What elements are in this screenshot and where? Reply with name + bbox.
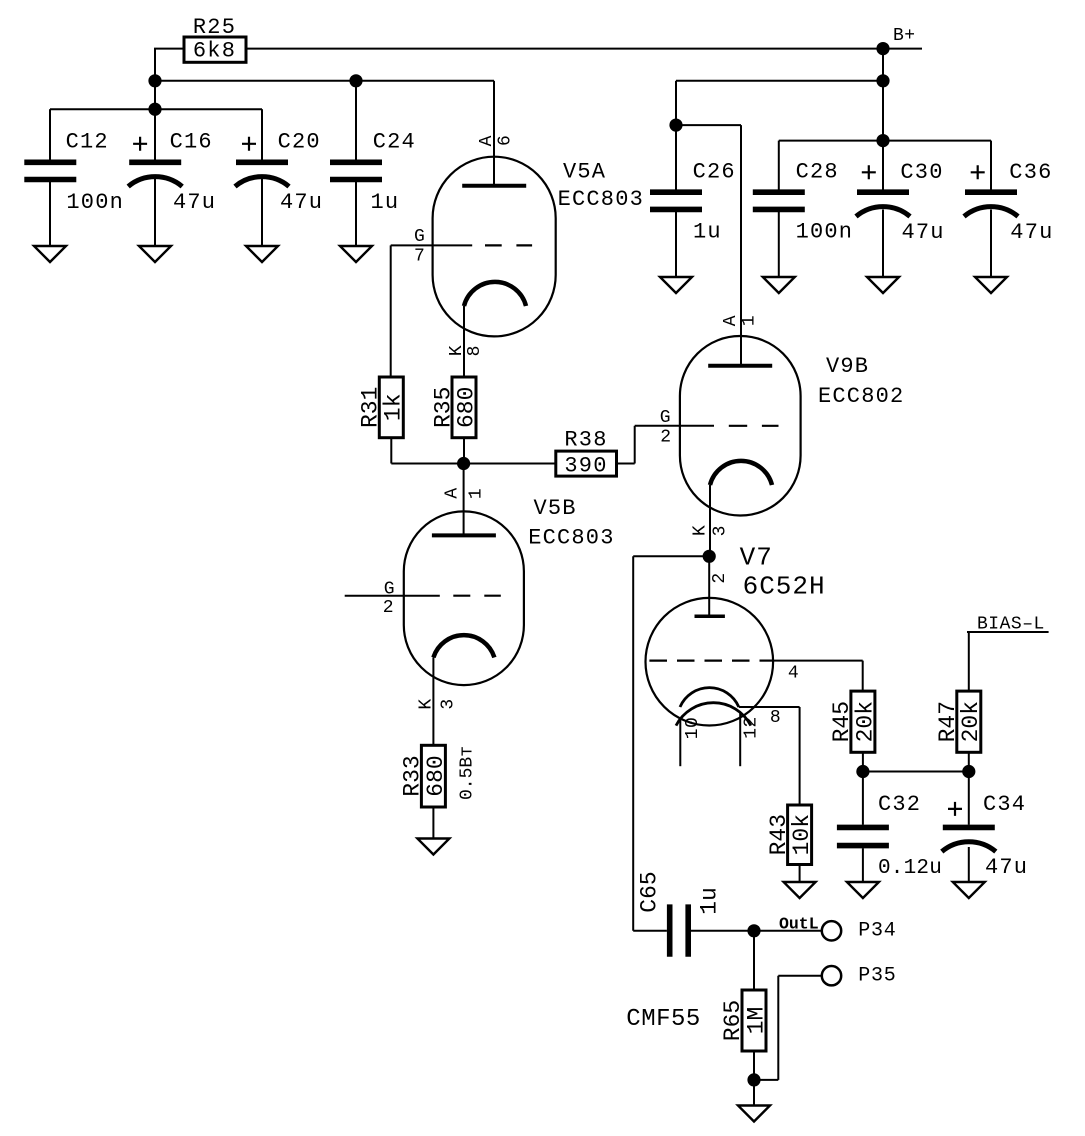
svg-text:8: 8 — [465, 345, 485, 356]
svg-text:20k: 20k — [852, 701, 878, 742]
svg-text:G: G — [384, 580, 395, 600]
svg-text:680: 680 — [423, 755, 449, 796]
svg-text:B+: B+ — [893, 26, 916, 46]
svg-text:10k: 10k — [789, 814, 815, 855]
svg-text:2: 2 — [383, 598, 394, 618]
svg-text:1u: 1u — [371, 190, 400, 215]
svg-text:100n: 100n — [796, 220, 854, 245]
svg-text:1u: 1u — [696, 887, 722, 915]
svg-text:1: 1 — [740, 315, 760, 326]
svg-text:C34: C34 — [983, 792, 1026, 817]
svg-text:V9B: V9B — [826, 354, 869, 379]
svg-text:C16: C16 — [170, 129, 213, 154]
svg-text:7: 7 — [414, 246, 425, 266]
svg-text:2: 2 — [710, 572, 730, 583]
svg-text:C20: C20 — [278, 129, 321, 154]
svg-text:680: 680 — [453, 387, 479, 428]
svg-text:C65: C65 — [636, 871, 662, 912]
svg-text:K: K — [691, 525, 711, 536]
svg-text:6C52H: 6C52H — [743, 572, 826, 602]
svg-text:1u: 1u — [693, 220, 722, 245]
svg-text:ECC802: ECC802 — [818, 384, 904, 409]
svg-text:OutL: OutL — [779, 915, 819, 934]
svg-text:P35: P35 — [858, 964, 896, 987]
svg-text:6: 6 — [496, 135, 516, 146]
svg-text:R25: R25 — [193, 15, 236, 40]
svg-text:R33: R33 — [400, 755, 426, 796]
svg-text:R43: R43 — [766, 814, 792, 855]
svg-text:47u: 47u — [173, 190, 216, 215]
svg-text:R38: R38 — [564, 428, 607, 453]
svg-text:R31: R31 — [357, 387, 383, 428]
svg-text:4: 4 — [788, 664, 799, 684]
svg-text:CMF55: CMF55 — [626, 1006, 701, 1033]
svg-text:C12: C12 — [66, 129, 109, 154]
svg-text:C28: C28 — [796, 159, 839, 184]
svg-text:K: K — [447, 345, 467, 356]
svg-text:12: 12 — [742, 716, 762, 739]
svg-text:10: 10 — [683, 717, 703, 740]
svg-text:2: 2 — [660, 428, 671, 448]
svg-text:V5A: V5A — [563, 160, 606, 185]
svg-text:C32: C32 — [878, 792, 921, 817]
svg-text:0.5Вт: 0.5Вт — [457, 746, 477, 800]
svg-text:A: A — [477, 135, 497, 146]
svg-text:1k: 1k — [381, 393, 407, 421]
svg-text:20k: 20k — [958, 701, 984, 742]
svg-text:V7: V7 — [740, 542, 773, 572]
svg-text:R65: R65 — [720, 1000, 746, 1041]
svg-text:100n: 100n — [66, 190, 124, 215]
svg-text:G: G — [414, 227, 425, 247]
svg-text:V5B: V5B — [534, 496, 577, 521]
svg-text:C36: C36 — [1009, 160, 1052, 185]
svg-text:G: G — [660, 408, 671, 428]
svg-text:47u: 47u — [902, 220, 945, 245]
svg-text:3: 3 — [711, 525, 731, 536]
svg-text:ECC803: ECC803 — [558, 187, 644, 212]
svg-text:1: 1 — [467, 488, 487, 499]
svg-text:3: 3 — [439, 698, 459, 709]
svg-text:47u: 47u — [280, 190, 323, 215]
svg-text:8: 8 — [770, 708, 781, 728]
svg-text:A: A — [721, 315, 741, 326]
svg-text:A: A — [443, 487, 463, 498]
svg-text:R45: R45 — [829, 701, 855, 742]
svg-text:47u: 47u — [1010, 220, 1053, 245]
svg-text:ECC803: ECC803 — [528, 526, 614, 551]
svg-text:0.12u: 0.12u — [878, 857, 942, 880]
svg-text:K: K — [417, 698, 437, 709]
svg-text:C26: C26 — [693, 159, 736, 184]
svg-text:P34: P34 — [858, 920, 896, 943]
svg-text:1M: 1M — [743, 1007, 769, 1035]
svg-text:47u: 47u — [985, 855, 1028, 880]
svg-text:C24: C24 — [373, 129, 416, 154]
svg-text:C30: C30 — [900, 160, 943, 185]
svg-text:6k8: 6k8 — [193, 39, 236, 64]
svg-text:BIAS–L: BIAS–L — [977, 614, 1045, 634]
svg-text:390: 390 — [564, 454, 607, 479]
svg-text:R47: R47 — [935, 701, 961, 742]
